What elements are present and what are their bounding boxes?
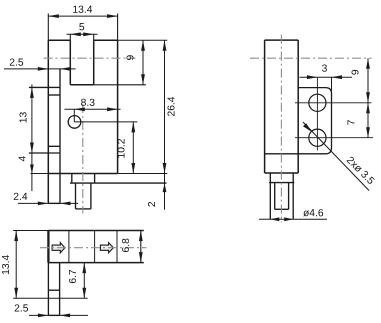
svg-text:7: 7	[347, 119, 358, 125]
dimension 2.5 bottom view	[29, 314, 88, 316]
dimension 2.4	[18, 202, 78, 204]
dimension 9 front	[142, 40, 144, 85]
front view: center pin	[76, 183, 91, 209]
bottom view: leg and pin	[48, 263, 59, 316]
svg-text:2: 2	[147, 201, 158, 207]
dimension 13 left	[31, 84, 33, 191]
bottom view: cell dividers	[69, 231, 117, 263]
dimension 6.7	[83, 263, 85, 299]
svg-text:13.4: 13.4	[72, 5, 92, 16]
side view: horizontal optical centerline	[250, 57, 372, 59]
side view: lower mounting hole	[309, 129, 326, 146]
side view: pin collar	[269, 173, 294, 219]
dimension 8.3	[65, 108, 121, 110]
bottom view: bar outline	[48, 231, 143, 263]
dimension 10.2	[74, 121, 137, 123]
svg-text:13.4: 13.4	[1, 255, 12, 275]
dimension 9 side	[367, 58, 369, 103]
dimension 5	[67, 33, 98, 35]
front view: slot	[70, 34, 146, 85]
dimension 2	[163, 183, 167, 192]
bottom view: emitter arrow symbol	[52, 243, 65, 253]
side view: pin inner thread	[275, 183, 289, 210]
svg-text:26.4: 26.4	[166, 96, 177, 116]
svg-text:6.7: 6.7	[68, 269, 79, 284]
bottom view: receiver arrow symbol	[100, 243, 113, 253]
svg-text:9: 9	[126, 54, 137, 60]
dimension 3 side	[300, 76, 353, 78]
bottom view: horizontal centerline	[40, 247, 147, 249]
svg-text:8.3: 8.3	[81, 98, 96, 109]
svg-text:2.5: 2.5	[9, 58, 24, 69]
svg-text:10.2: 10.2	[117, 138, 128, 158]
svg-text:3: 3	[322, 64, 328, 75]
side view: hole centerlines	[295, 77, 373, 150]
side view: mounting plate	[265, 88, 332, 154]
svg-text:ø4.6: ø4.6	[303, 208, 324, 219]
front view: vertical centerline	[82, 104, 84, 214]
side view: vertical centerline	[280, 35, 282, 223]
svg-text:5: 5	[79, 22, 85, 33]
svg-text:13: 13	[18, 112, 29, 124]
dimension 13.4 top	[48, 15, 117, 17]
front view: hole circle	[68, 116, 81, 129]
svg-text:2.5: 2.5	[14, 303, 29, 314]
front view: body outline	[31, 14, 168, 204]
dimension 7 side	[367, 103, 369, 138]
side view: upper mounting hole	[309, 94, 326, 111]
svg-text:4: 4	[18, 155, 29, 161]
front view: horizontal centerline	[44, 57, 136, 59]
dimension 26.4	[118, 39, 168, 41]
dimension 6.8	[139, 231, 143, 263]
dimension 2.5 left	[4, 68, 76, 70]
svg-text:9: 9	[351, 69, 362, 75]
side view: body outline	[265, 40, 299, 173]
front view: left column and pin	[29, 69, 60, 204]
svg-text:2.4: 2.4	[13, 192, 28, 203]
dimension 13.4 bottom view	[13, 230, 48, 232]
leader 2x diameter 3.5	[303, 122, 369, 191]
dimension 4 left	[30, 165, 34, 174]
front view: center pin flange	[70, 174, 167, 184]
svg-text:6.8: 6.8	[121, 238, 132, 253]
dimension diameter 4.6	[259, 218, 327, 220]
